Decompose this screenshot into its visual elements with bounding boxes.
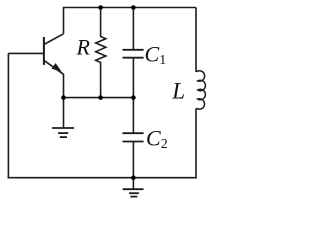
node: C1-C2 junction [131,95,136,100]
node: R top junction [98,5,103,10]
node: bottom ground junction [131,175,136,180]
svg-text:C2: C2 [146,125,168,152]
wire right side upper [195,8,197,73]
wire bottom rail [8,177,197,179]
svg-text:R: R [76,35,91,60]
transistor Q1 emitter arrow [52,63,62,72]
wire right side lower [195,108,197,177]
capacitor C1 [123,8,144,98]
resistor R [96,8,106,98]
ground (bottom) [123,178,144,197]
transistor Q1 base bar [43,37,45,65]
ground (emitter) [52,98,74,138]
wire top rail [64,8,197,34]
transistor Q1 collector [44,34,64,45]
wire left side [7,53,9,178]
transistor Q1 emitter [44,60,64,97]
node: C1 top junction [131,5,136,10]
wire emitter row [64,97,134,99]
svg-text:C1: C1 [145,42,167,69]
node: R bottom junction [98,95,103,100]
capacitor C2 [123,98,144,178]
node: emitter junction [61,95,66,100]
svg-text:L: L [171,78,185,103]
wire base [8,52,44,54]
inductor L [196,71,205,109]
